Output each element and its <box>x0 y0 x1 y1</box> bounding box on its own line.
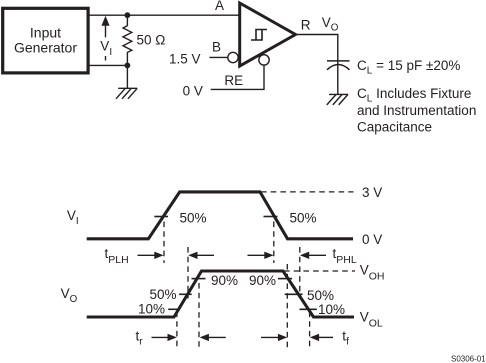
waveform V_I <box>87 192 353 239</box>
node junction top <box>125 12 131 18</box>
svg-text:A: A <box>215 0 224 13</box>
arrow t_PLH left <box>188 252 214 259</box>
dashed V_O rise 50% vertical <box>187 247 189 299</box>
svg-text:50%: 50% <box>180 211 207 226</box>
arrow t_PLH right <box>138 252 164 259</box>
dashed 3V level <box>261 191 354 193</box>
wire B input <box>209 56 228 58</box>
tick V_O rise 10% <box>168 308 178 310</box>
arrow t_r left <box>200 334 226 341</box>
svg-text:0 V: 0 V <box>183 84 203 99</box>
dashed V_O fall 50% vertical <box>299 247 301 295</box>
wire top (box to A input) <box>88 14 240 16</box>
hysteresis symbol <box>251 30 267 41</box>
dashed V_I rise 50% vertical <box>163 222 165 264</box>
arrow t_f left <box>310 334 333 341</box>
arrow t_f right <box>261 334 287 341</box>
wire cap to ground <box>337 62 339 95</box>
tick V_O fall 90% <box>278 278 292 280</box>
dashed t_r left vertical <box>176 312 178 349</box>
dashed t_f left vertical <box>286 264 288 348</box>
capacitor CL <box>327 61 350 70</box>
svg-text:50 Ω: 50 Ω <box>137 33 166 48</box>
svg-text:10%: 10% <box>318 302 345 317</box>
dashed V_OH level <box>284 270 355 272</box>
ground (below capacitor) <box>327 94 348 105</box>
svg-text:and Instrumentation: and Instrumentation <box>357 103 476 118</box>
op-amp U1 buffer triangle <box>240 3 296 66</box>
tick V_O fall 10% <box>300 308 317 310</box>
svg-text:3 V: 3 V <box>362 185 382 200</box>
svg-text:Capacitance: Capacitance <box>357 119 432 134</box>
dashed V_I fall 50% vertical <box>273 222 275 264</box>
svg-text:B: B <box>212 40 221 55</box>
svg-text:50%: 50% <box>307 288 334 303</box>
dashed t_f right vertical <box>309 312 311 349</box>
wire RE <box>211 65 264 89</box>
svg-text:Input: Input <box>30 25 61 41</box>
Input Generator box <box>3 8 88 73</box>
ground (below resistor) <box>116 65 137 98</box>
wire bottom (box to resistor) <box>88 64 127 66</box>
tick V_O fall 50% <box>285 293 303 295</box>
tick V_I fall 50% <box>264 216 278 218</box>
svg-text:Generator: Generator <box>14 40 77 56</box>
svg-text:RE: RE <box>224 73 243 88</box>
svg-text:S0306-01: S0306-01 <box>451 355 486 363</box>
dashed t_r right vertical <box>198 283 200 348</box>
svg-text:90%: 90% <box>249 273 276 288</box>
wire output <box>296 35 338 61</box>
arrow t_PHL right <box>248 252 274 259</box>
svg-text:50%: 50% <box>150 287 177 302</box>
arrow t_PHL left <box>300 252 326 259</box>
resistor R 50 ohm <box>123 15 132 65</box>
arrow t_r right <box>152 334 177 341</box>
svg-text:1.5 V: 1.5 V <box>169 52 201 67</box>
tick V_O rise 50% <box>179 293 192 295</box>
svg-text:10%: 10% <box>138 302 165 317</box>
input B bubble <box>228 52 238 62</box>
svg-text:0 V: 0 V <box>362 232 382 247</box>
RE bubble <box>259 55 269 65</box>
svg-text:50%: 50% <box>290 211 317 226</box>
tick V_I rise 50% <box>154 216 168 218</box>
node junction bottom <box>125 63 131 69</box>
svg-text:R: R <box>301 18 311 33</box>
waveform V_O <box>87 271 354 317</box>
tick V_O rise 90% <box>192 278 206 280</box>
svg-text:90%: 90% <box>211 273 238 288</box>
V_I voltage arrow <box>101 16 109 61</box>
